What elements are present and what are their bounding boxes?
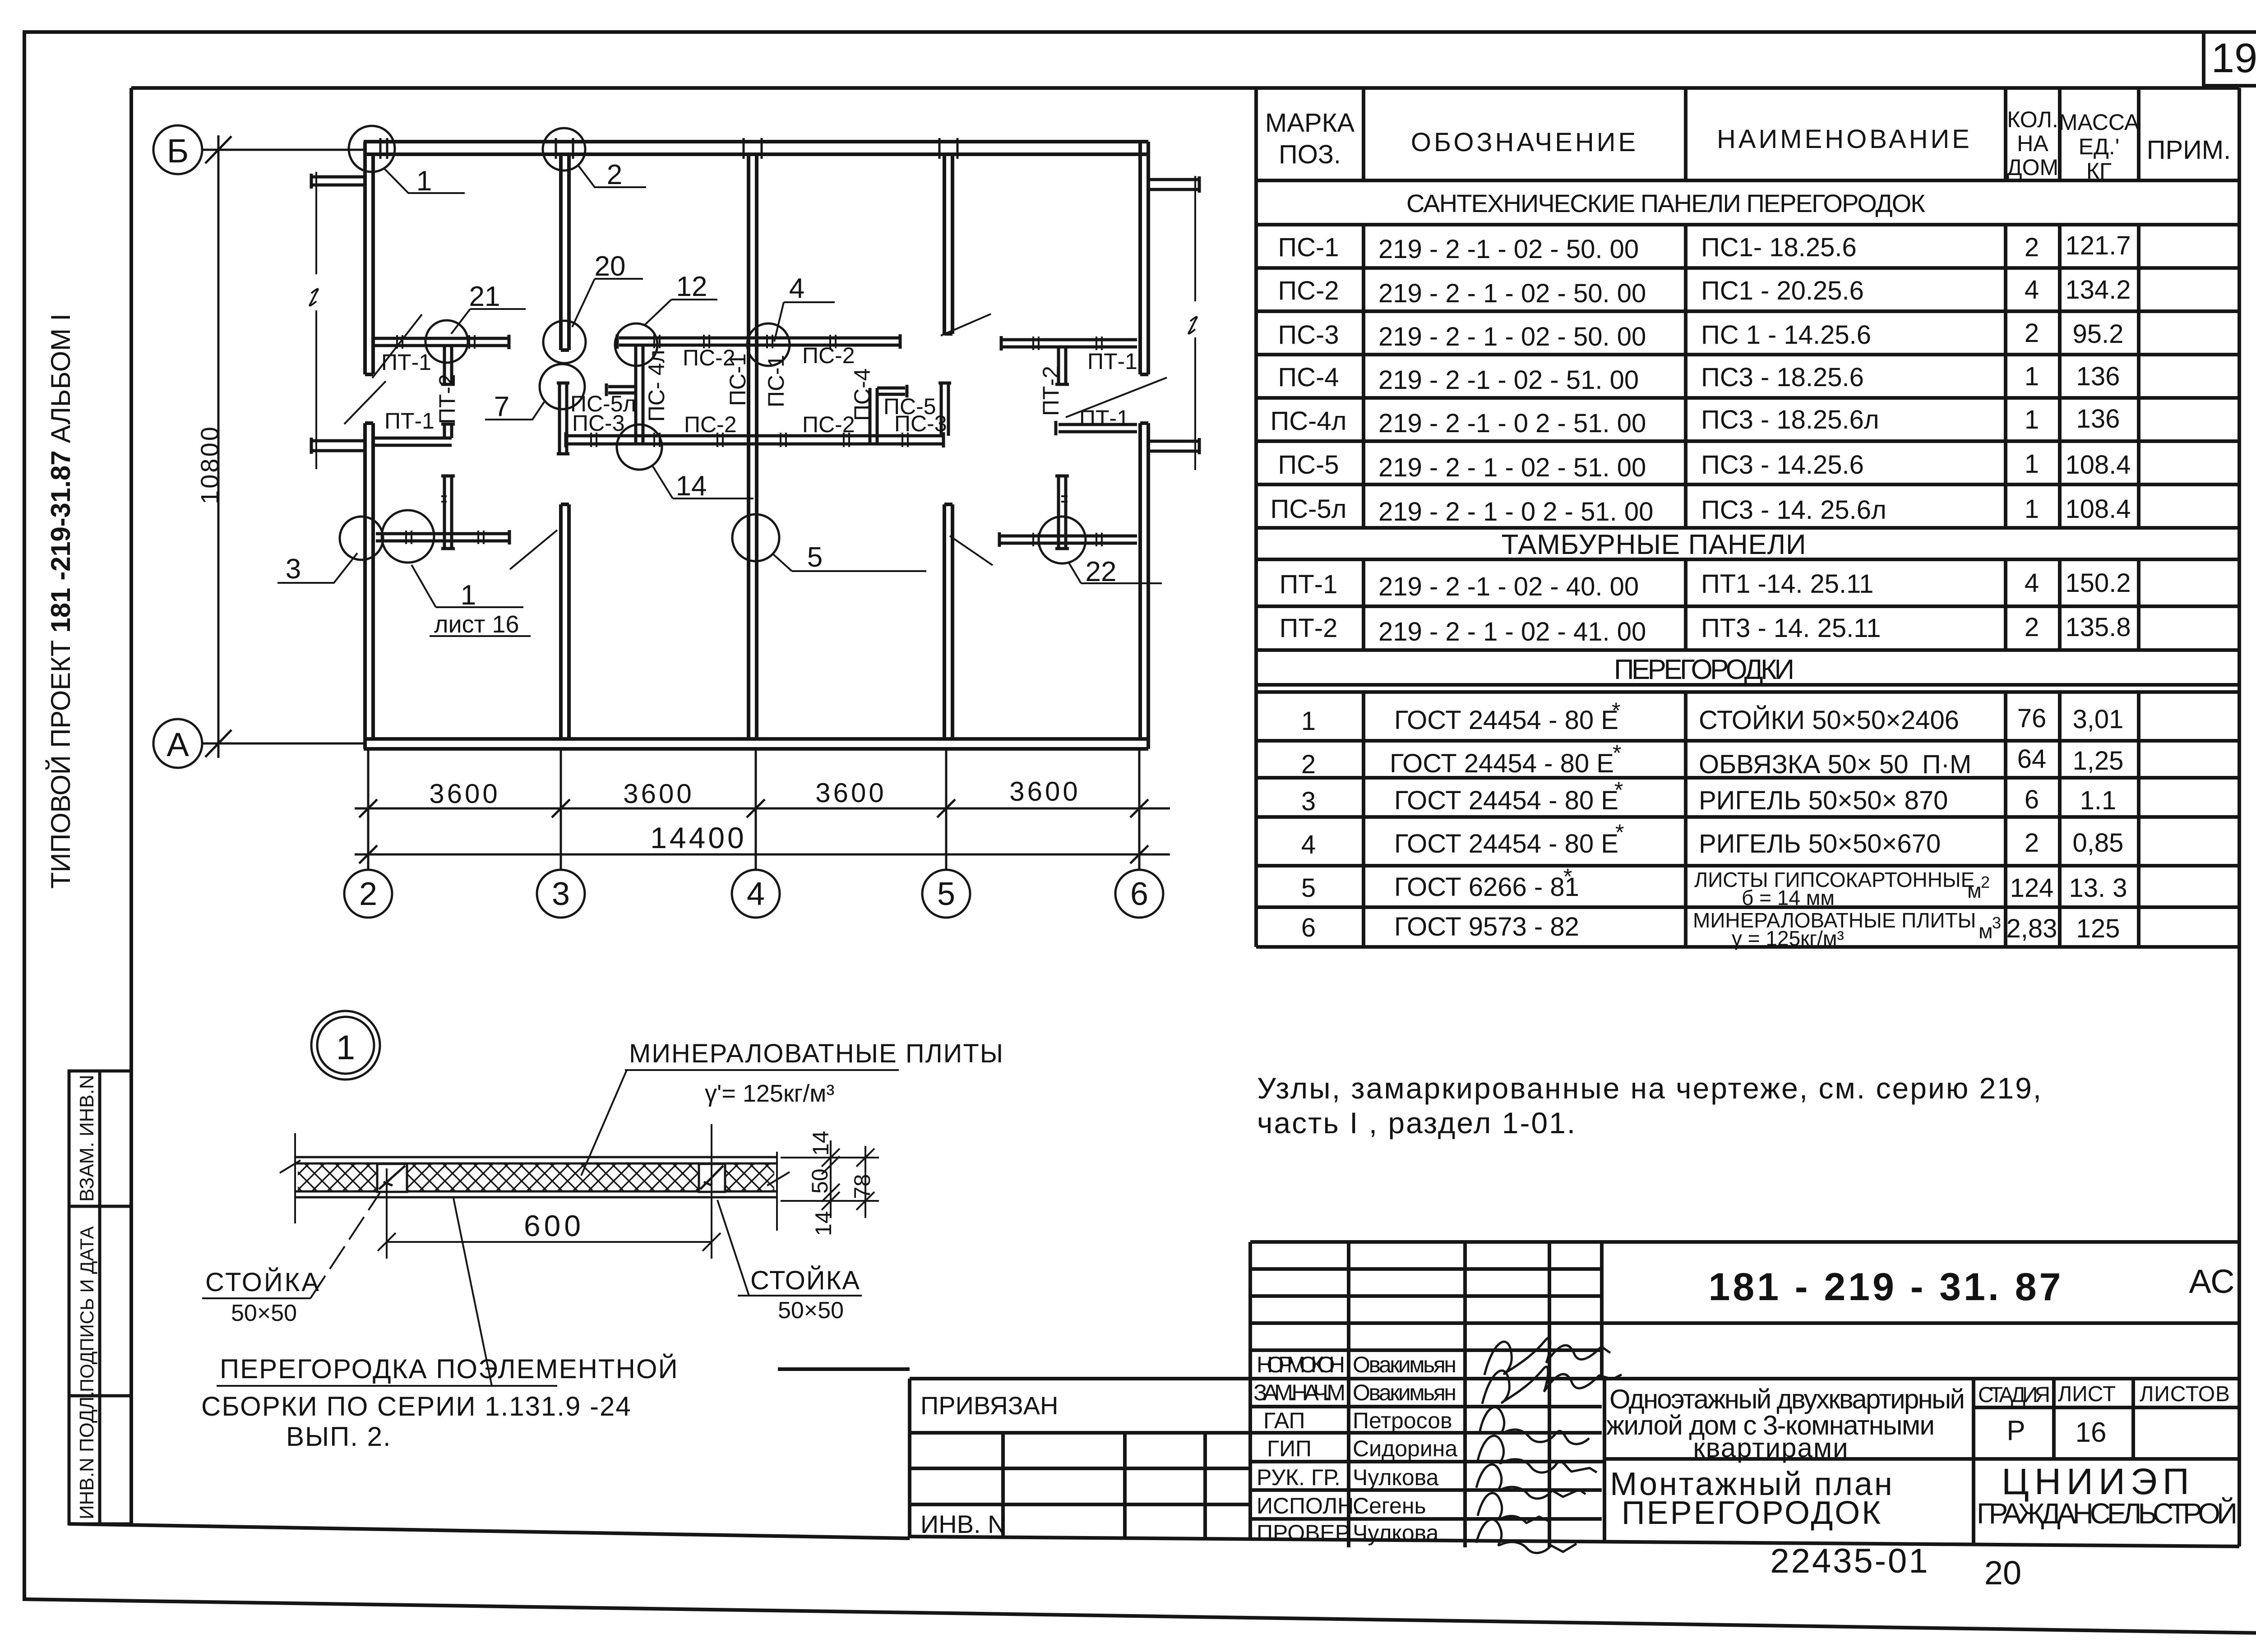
svg-text:МИНЕРАЛОВАТНЫЕ ПЛИТЫ: МИНЕРАЛОВАТНЫЕ ПЛИТЫ — [629, 1039, 1004, 1068]
svg-text:2: 2 — [2025, 613, 2039, 642]
svg-text:РИГЕЛЬ 50×50× 870: РИГЕЛЬ 50×50× 870 — [1699, 786, 1948, 815]
svg-text:22: 22 — [1086, 556, 1117, 587]
NOTE TEXT — [1257, 1071, 2043, 1140]
section strip — [295, 1157, 777, 1197]
svg-text:ПС-2: ПС-2 — [802, 412, 855, 437]
svg-text:ПС1 - 20.25.6: ПС1 - 20.25.6 — [1701, 276, 1864, 305]
svg-text:219 - 2 - 1 - 02 - 50. 00: 219 - 2 - 1 - 02 - 50. 00 — [1378, 322, 1646, 351]
svg-text:3,01: 3,01 — [2073, 705, 2124, 734]
svg-text:ГОСТ 6266 - 81: ГОСТ 6266 - 81 — [1394, 872, 1579, 902]
svg-text:21: 21 — [469, 281, 500, 312]
data column verticals: sanpanel section — [1362, 225, 1365, 528]
svg-text:136: 136 — [2076, 362, 2120, 391]
bottom dimension lines — [355, 749, 1170, 870]
svg-text:часть I , раздел 1-01.: часть I , раздел 1-01. — [1257, 1106, 1576, 1140]
svg-text:ПТ-2: ПТ-2 — [1038, 366, 1063, 416]
LEFT MARGIN — [46, 314, 131, 1524]
svg-text:4: 4 — [747, 876, 765, 912]
svg-text:600: 600 — [524, 1209, 584, 1242]
svg-text:ГОСТ 24454 - 80 Е: ГОСТ 24454 - 80 Е — [1390, 749, 1614, 778]
svg-text:Б: Б — [167, 132, 189, 170]
svg-text:1: 1 — [2025, 449, 2039, 479]
svg-text:САНТЕХНИЧЕСКИЕ ПАНЕЛИ ПЕРЕГ: САНТЕХНИЧЕСКИЕ ПАНЕЛИ ПЕРЕГОРОДОК — [1406, 189, 1925, 217]
svg-text:квартирами: квартирами — [1693, 1433, 1849, 1463]
sig rows — [1250, 1348, 1602, 1352]
svg-text:219 - 2 -1 - 0 2 - 51. 00: 219 - 2 -1 - 0 2 - 51. 00 — [1378, 409, 1646, 438]
axis5 wall — [943, 154, 946, 334]
detail circles on plan — [340, 126, 1086, 563]
door leader diagonals — [344, 314, 1167, 569]
svg-text:50: 50 — [807, 1168, 832, 1194]
joint tick marks on bands — [397, 335, 1102, 546]
svg-text:ЛИСТОВ: ЛИСТОВ — [2140, 1382, 2230, 1406]
joint tick marks on top wall — [380, 138, 957, 159]
left vert (PS-5L) — [558, 383, 561, 454]
svg-text:ГОСТ 24454 - 80 Е: ГОСТ 24454 - 80 Е — [1394, 829, 1618, 858]
svg-text:3: 3 — [1992, 914, 2001, 932]
svg-text:ПЕРЕГОРОДКИ: ПЕРЕГОРОДКИ — [1614, 654, 1794, 685]
upper band — [619, 337, 900, 340]
svg-text:219 - 2 - 1 - 02 - 51. 00: 219 - 2 - 1 - 02 - 51. 00 — [1378, 453, 1646, 482]
svg-text:Сидорина: Сидорина — [1353, 1436, 1457, 1461]
axis4 wall — [747, 154, 750, 739]
svg-text:ПТ-2: ПТ-2 — [435, 374, 460, 424]
tambour partitions left — [375, 335, 509, 445]
svg-text:ОБОЗНАЧЕНИЕ: ОБОЗНАЧЕНИЕ — [1411, 128, 1638, 157]
svg-text:219 - 2 -1 - 02 - 40. 00: 219 - 2 -1 - 02 - 40. 00 — [1378, 572, 1639, 601]
svg-text:1: 1 — [2025, 405, 2039, 434]
svg-text:А: А — [166, 726, 189, 763]
svg-text:6: 6 — [1301, 913, 1316, 942]
stamps box — [69, 1071, 131, 1524]
svg-text:Сегень: Сегень — [1353, 1493, 1426, 1518]
svg-text:МАРКА: МАРКА — [1265, 108, 1355, 138]
svg-text:64: 64 — [2017, 744, 2047, 774]
svg-text:ЗАМ.НАЧ.М: ЗАМ.НАЧ.М — [1253, 1380, 1345, 1405]
svg-text:50×50: 50×50 — [231, 1300, 297, 1326]
dim 600 — [284, 1060, 721, 1251]
svg-text:1: 1 — [336, 1029, 355, 1067]
svg-text:ПС 1 - 14.25.6: ПС 1 - 14.25.6 — [1701, 320, 1871, 350]
svg-text:ПС-2: ПС-2 — [802, 343, 855, 368]
svg-text:*: * — [1612, 698, 1620, 723]
small rows top — [1250, 1267, 1602, 1271]
svg-text:РУК. ГР.: РУК. ГР. — [1257, 1465, 1341, 1490]
svg-text:ЕД.': ЕД.' — [2079, 134, 2120, 159]
svg-text:м: м — [1967, 879, 1982, 902]
svg-text:СБОРКИ ПО СЕРИИ 1.131.9 -24: СБОРКИ ПО СЕРИИ 1.131.9 -24 — [201, 1391, 632, 1421]
svg-text:219 - 2 - 1 - 02 - 41. 00: 219 - 2 - 1 - 02 - 41. 00 — [1378, 617, 1646, 646]
svg-text:14: 14 — [811, 1211, 836, 1236]
svg-text:ПТ-1: ПТ-1 — [381, 350, 431, 375]
svg-text:2: 2 — [1981, 873, 1990, 891]
signatures squiggles — [1476, 1338, 1622, 1553]
svg-text:ПС-3: ПС-3 — [1278, 320, 1339, 350]
svg-text:136: 136 — [2076, 404, 2120, 434]
SPEC TABLE — [1256, 88, 2239, 950]
svg-text:ГАП: ГАП — [1263, 1408, 1305, 1433]
svg-text:50×50: 50×50 — [778, 1297, 844, 1324]
svg-text:Р: Р — [2006, 1415, 2025, 1446]
svg-text:ПС-5: ПС-5 — [1278, 450, 1339, 480]
svg-text:5: 5 — [807, 542, 823, 573]
svg-text:ПРОВЕР.: ПРОВЕР. — [1257, 1520, 1352, 1546]
svg-text:ПС-4: ПС-4 — [850, 368, 875, 421]
svg-text:ПЕРЕГОРОДКА ПОЭЛЕМЕНТНОЙ: ПЕРЕГОРОДКА ПОЭЛЕМЕНТНОЙ — [220, 1354, 679, 1384]
svg-text:1.1: 1.1 — [2080, 786, 2117, 815]
svg-text:ПС3 - 18.25.6л: ПС3 - 18.25.6л — [1701, 405, 1879, 434]
svg-text:ПС-4л: ПС-4л — [1271, 406, 1347, 436]
peregorodki section — [1256, 683, 2239, 687]
svg-text:1: 1 — [416, 166, 432, 197]
svg-text:2,83: 2,83 — [2006, 914, 2057, 943]
svg-text:ТАМБУРНЫЕ ПАНЕЛИ: ТАМБУРНЫЕ ПАНЕЛИ — [1502, 529, 1806, 560]
page number box — [2204, 32, 2256, 86]
privyazan box — [908, 1379, 911, 1537]
svg-text:6: 6 — [1130, 876, 1148, 912]
svg-text:1,25: 1,25 — [2073, 746, 2124, 775]
svg-text:78: 78 — [850, 1174, 875, 1199]
svg-text:4: 4 — [2025, 275, 2039, 305]
svg-text:3600: 3600 — [429, 779, 500, 809]
svg-text:134.2: 134.2 — [2065, 275, 2131, 305]
svg-text:γ'= 125кг/м³: γ'= 125кг/м³ — [705, 1080, 834, 1107]
svg-text:ПС-1: ПС-1 — [763, 355, 789, 407]
svg-text:ПОДПИСЬ И ДАТА: ПОДПИСЬ И ДАТА — [76, 1226, 97, 1392]
axis system — [153, 125, 364, 768]
right vert — [940, 383, 943, 436]
axis circles bottom — [344, 870, 1163, 918]
svg-text:ПС-3: ПС-3 — [894, 411, 947, 436]
table grid — [1256, 88, 2239, 947]
PS-4 vert — [869, 388, 872, 444]
detail marker circle — [311, 1011, 380, 1080]
svg-text:*: * — [1615, 820, 1624, 845]
svg-text:ЦНИИЭП: ЦНИИЭП — [2002, 1461, 2195, 1502]
svg-text:ПС-5л: ПС-5л — [1271, 494, 1347, 524]
svg-text:7: 7 — [494, 391, 509, 422]
svg-text:*: * — [1563, 864, 1572, 889]
svg-text:4: 4 — [789, 273, 804, 304]
svg-text:АС: АС — [2189, 1263, 2234, 1300]
svg-text:ПС1- 18.25.6: ПС1- 18.25.6 — [1701, 233, 1857, 262]
svg-text:108.4: 108.4 — [2065, 450, 2131, 480]
svg-text:ПС-2: ПС-2 — [684, 412, 737, 437]
stubs — [608, 385, 636, 388]
svg-text:108.4: 108.4 — [2065, 494, 2131, 524]
top wall — [364, 140, 1148, 143]
left wall with opening — [363, 142, 367, 374]
svg-text:14: 14 — [676, 471, 707, 502]
svg-text:ПТ1 -14. 25.11: ПТ1 -14. 25.11 — [1701, 569, 1873, 599]
svg-text:ПС-1: ПС-1 — [1278, 233, 1339, 262]
svg-text:3: 3 — [1301, 787, 1316, 816]
partition labels — [381, 343, 1137, 437]
svg-text:СТАДИЯ: СТАДИЯ — [1978, 1383, 2050, 1407]
svg-text:2: 2 — [2025, 828, 2039, 858]
svg-text:124: 124 — [2010, 873, 2054, 903]
svg-text:КОЛ.: КОЛ. — [2007, 107, 2058, 132]
number labels with leaders — [277, 165, 1162, 636]
svg-text:ИСПОЛН.: ИСПОЛН. — [1257, 1493, 1360, 1518]
svg-text:лист 16: лист 16 — [434, 611, 519, 638]
svg-text:ПС3 - 14.25.6: ПС3 - 14.25.6 — [1701, 450, 1864, 480]
svg-text:ГРАЖДАНСЕЛЬСТРОЙ: ГРАЖДАНСЕЛЬСТРОЙ — [1977, 1497, 2238, 1530]
svg-text:2: 2 — [2025, 318, 2039, 348]
svg-text:СТОЙКА: СТОЙКА — [205, 1268, 321, 1297]
svg-text:ПТ-1: ПТ-1 — [1087, 349, 1137, 374]
svg-text:ВЗАМ. ИНВ.N: ВЗАМ. ИНВ.N — [76, 1075, 98, 1202]
svg-text:ПТ3 - 14. 25.11: ПТ3 - 14. 25.11 — [1701, 614, 1881, 643]
svg-text:γ = 125кг/м³: γ = 125кг/м³ — [1732, 927, 1844, 950]
bottom wall — [364, 737, 1148, 741]
svg-text:3600: 3600 — [623, 779, 694, 809]
svg-text:150.2: 150.2 — [2065, 568, 2131, 598]
studs — [377, 1164, 725, 1192]
svg-text:14: 14 — [808, 1131, 833, 1156]
svg-text:19: 19 — [2211, 35, 2256, 81]
lower band — [566, 434, 943, 438]
svg-text:ГОСТ 9573 - 82: ГОСТ 9573 - 82 — [1394, 912, 1579, 941]
svg-text:ПС-4: ПС-4 — [1278, 363, 1339, 392]
svg-text:ПРИМ.: ПРИМ. — [2147, 135, 2231, 165]
svg-text:ОБВЯЗКА 50× 50: ОБВЯЗКА 50× 50 — [1699, 750, 1908, 779]
svg-text:ПТ-1: ПТ-1 — [384, 408, 435, 434]
row lines sanpanel — [1256, 266, 2239, 270]
svg-text:4: 4 — [2025, 568, 2039, 598]
svg-text:1: 1 — [461, 580, 476, 611]
header texts — [1265, 107, 2231, 184]
svg-text:*: * — [1613, 740, 1621, 766]
svg-text:Узлы, замаркированные на чер: Узлы, замаркированные на чертеже, см. се… — [1257, 1071, 2043, 1105]
svg-text:12: 12 — [676, 271, 707, 302]
svg-text:Овакимьян: Овакимьян — [1353, 1352, 1456, 1377]
svg-text:ИНВ. N: ИНВ. N — [920, 1510, 1006, 1538]
svg-text:РИГЕЛЬ 50×50×670: РИГЕЛЬ 50×50×670 — [1699, 829, 1941, 858]
svg-text:ТИПОВОЙ ПРОЕКТ 181 -219-31.8: ТИПОВОЙ ПРОЕКТ 181 -219-31.87 АЛЬБОМ I — [46, 314, 76, 889]
svg-text:5: 5 — [1301, 873, 1316, 903]
svg-text:135.8: 135.8 — [2065, 613, 2131, 642]
FLOOR PLAN — [153, 125, 1199, 918]
svg-text:НОРМОКОН: НОРМОКОН — [1257, 1352, 1345, 1377]
svg-text:219 - 2 - 1 - 0 2 - 51. 00: 219 - 2 - 1 - 0 2 - 51. 00 — [1378, 497, 1653, 526]
svg-text:3600: 3600 — [815, 778, 886, 808]
svg-text:НА: НА — [2017, 131, 2048, 156]
svg-text:ПС-3: ПС-3 — [572, 411, 625, 436]
svg-text:ИНВ.N ПОДЛ.: ИНВ.N ПОДЛ. — [76, 1391, 98, 1519]
bottom — [910, 1537, 2239, 1546]
svg-text:20: 20 — [1984, 1554, 2021, 1592]
svg-text:ГИП: ГИП — [1267, 1436, 1312, 1461]
right stacked dims 14/50/14 78 — [781, 1140, 879, 1218]
dim slashes — [359, 799, 1148, 863]
svg-text:95.2: 95.2 — [2073, 319, 2124, 349]
svg-text:2: 2 — [1301, 750, 1316, 779]
svg-text:0,85: 0,85 — [2073, 828, 2124, 858]
right wall with opening — [1138, 142, 1142, 374]
svg-text:22435-01: 22435-01 — [1770, 1542, 1929, 1580]
tambur section — [1256, 558, 2239, 561]
svg-text:4: 4 — [1301, 830, 1316, 859]
svg-text:ГОСТ 24454 - 80 Е: ГОСТ 24454 - 80 Е — [1394, 786, 1618, 815]
svg-text:219 - 2 -1 - 02 - 51. 00: 219 - 2 -1 - 02 - 51. 00 — [1378, 365, 1639, 395]
svg-text:НАИМЕНОВАНИЕ: НАИМЕНОВАНИЕ — [1717, 125, 1972, 154]
svg-text:6: 6 — [2025, 785, 2039, 814]
svg-text:ДОМ: ДОМ — [2007, 155, 2058, 180]
svg-text:Чулкова: Чулкова — [1353, 1465, 1439, 1490]
svg-text:ПТ-1: ПТ-1 — [1280, 570, 1338, 599]
svg-text:1: 1 — [1301, 706, 1316, 736]
TITLE BLOCK — [778, 1242, 2239, 1592]
svg-text:ПЕРЕГОРОДОК: ПЕРЕГОРОДОК — [1622, 1495, 1882, 1531]
svg-text:5: 5 — [937, 876, 955, 912]
svg-text:ВЫП. 2.: ВЫП. 2. — [286, 1421, 392, 1452]
svg-text:14400: 14400 — [650, 821, 747, 854]
sanitary block partitions — [557, 334, 951, 454]
svg-text:ПРИВЯЗАН: ПРИВЯЗАН — [920, 1391, 1058, 1420]
lower cross partitions — [376, 476, 1137, 549]
svg-text:ПТ-2: ПТ-2 — [1280, 614, 1338, 643]
DETAIL SECTION 1 — [201, 1011, 1004, 1452]
svg-text:3600: 3600 — [1009, 776, 1080, 807]
axis3 wall — [559, 154, 563, 350]
svg-text:ПС3 - 18.25.6: ПС3 - 18.25.6 — [1701, 363, 1864, 392]
title area verticals — [1603, 1379, 1606, 1541]
svg-text:2: 2 — [2025, 233, 2039, 262]
exterior porch stubs and cut lines — [311, 174, 1199, 454]
svg-text:*: * — [1614, 777, 1623, 803]
svg-text:125: 125 — [2076, 914, 2120, 943]
svg-text:ПС-2: ПС-2 — [1278, 276, 1339, 305]
svg-text:МАССА: МАССА — [2059, 110, 2140, 135]
svg-text:1: 1 — [2025, 362, 2039, 391]
svg-text:20: 20 — [595, 251, 626, 282]
svg-text:Овакимьян: Овакимьян — [1353, 1380, 1456, 1405]
svg-text:2: 2 — [607, 159, 622, 190]
outer of right big box — [1250, 1240, 2239, 1244]
svg-text:м: м — [1979, 919, 1993, 943]
svg-text:ПОЗ.: ПОЗ. — [1279, 140, 1341, 169]
svg-text:181 - 219 - 31. 87: 181 - 219 - 31. 87 — [1709, 1265, 2064, 1309]
svg-text:10800: 10800 — [195, 425, 224, 504]
PS-4L vert — [634, 345, 638, 444]
end extension verticals — [280, 1124, 790, 1259]
svg-text:Петросов: Петросов — [1353, 1408, 1452, 1433]
svg-text:219 - 2 - 1 - 02 - 50. 00: 219 - 2 - 1 - 02 - 50. 00 — [1378, 279, 1646, 308]
svg-text:б = 14 мм: б = 14 мм — [1742, 886, 1835, 909]
main walls (double lines) — [364, 142, 1148, 749]
svg-text:16: 16 — [2076, 1417, 2107, 1448]
tambour partitions right — [1001, 336, 1137, 435]
svg-text:Одноэтажный двухквартирный: Одноэтажный двухквартирный — [1609, 1384, 1966, 1414]
svg-text:76: 76 — [2017, 704, 2047, 733]
svg-text:1: 1 — [2025, 494, 2039, 524]
svg-text:ПС- 4л: ПС- 4л — [644, 350, 669, 422]
svg-text:ПС3 - 14. 25.6л: ПС3 - 14. 25.6л — [1701, 495, 1886, 525]
svg-text:ПС-1: ПС-1 — [725, 353, 750, 406]
svg-text:ГОСТ 24454 - 80 Е: ГОСТ 24454 - 80 Е — [1394, 706, 1618, 735]
svg-text:121.7: 121.7 — [2065, 231, 2131, 260]
svg-text:КГ: КГ — [2086, 158, 2112, 184]
svg-text:219 - 2 -1 - 02 - 50. 00: 219 - 2 -1 - 02 - 50. 00 — [1378, 235, 1639, 264]
svg-text:3: 3 — [552, 876, 570, 912]
svg-text:13. 3: 13. 3 — [2069, 873, 2127, 903]
svg-text:ЛИСТ: ЛИСТ — [2058, 1382, 2116, 1406]
svg-text:2: 2 — [359, 876, 377, 912]
svg-text:3: 3 — [286, 554, 301, 585]
svg-text:Чулкова: Чулкова — [1353, 1520, 1439, 1546]
svg-text:СТОЙКА: СТОЙКА — [750, 1266, 860, 1295]
data rows — [1271, 231, 2131, 526]
svg-text:П·М: П·М — [1922, 750, 1971, 779]
svg-text:СТОЙКИ 50×50×2406: СТОЙКИ 50×50×2406 — [1699, 706, 1959, 735]
